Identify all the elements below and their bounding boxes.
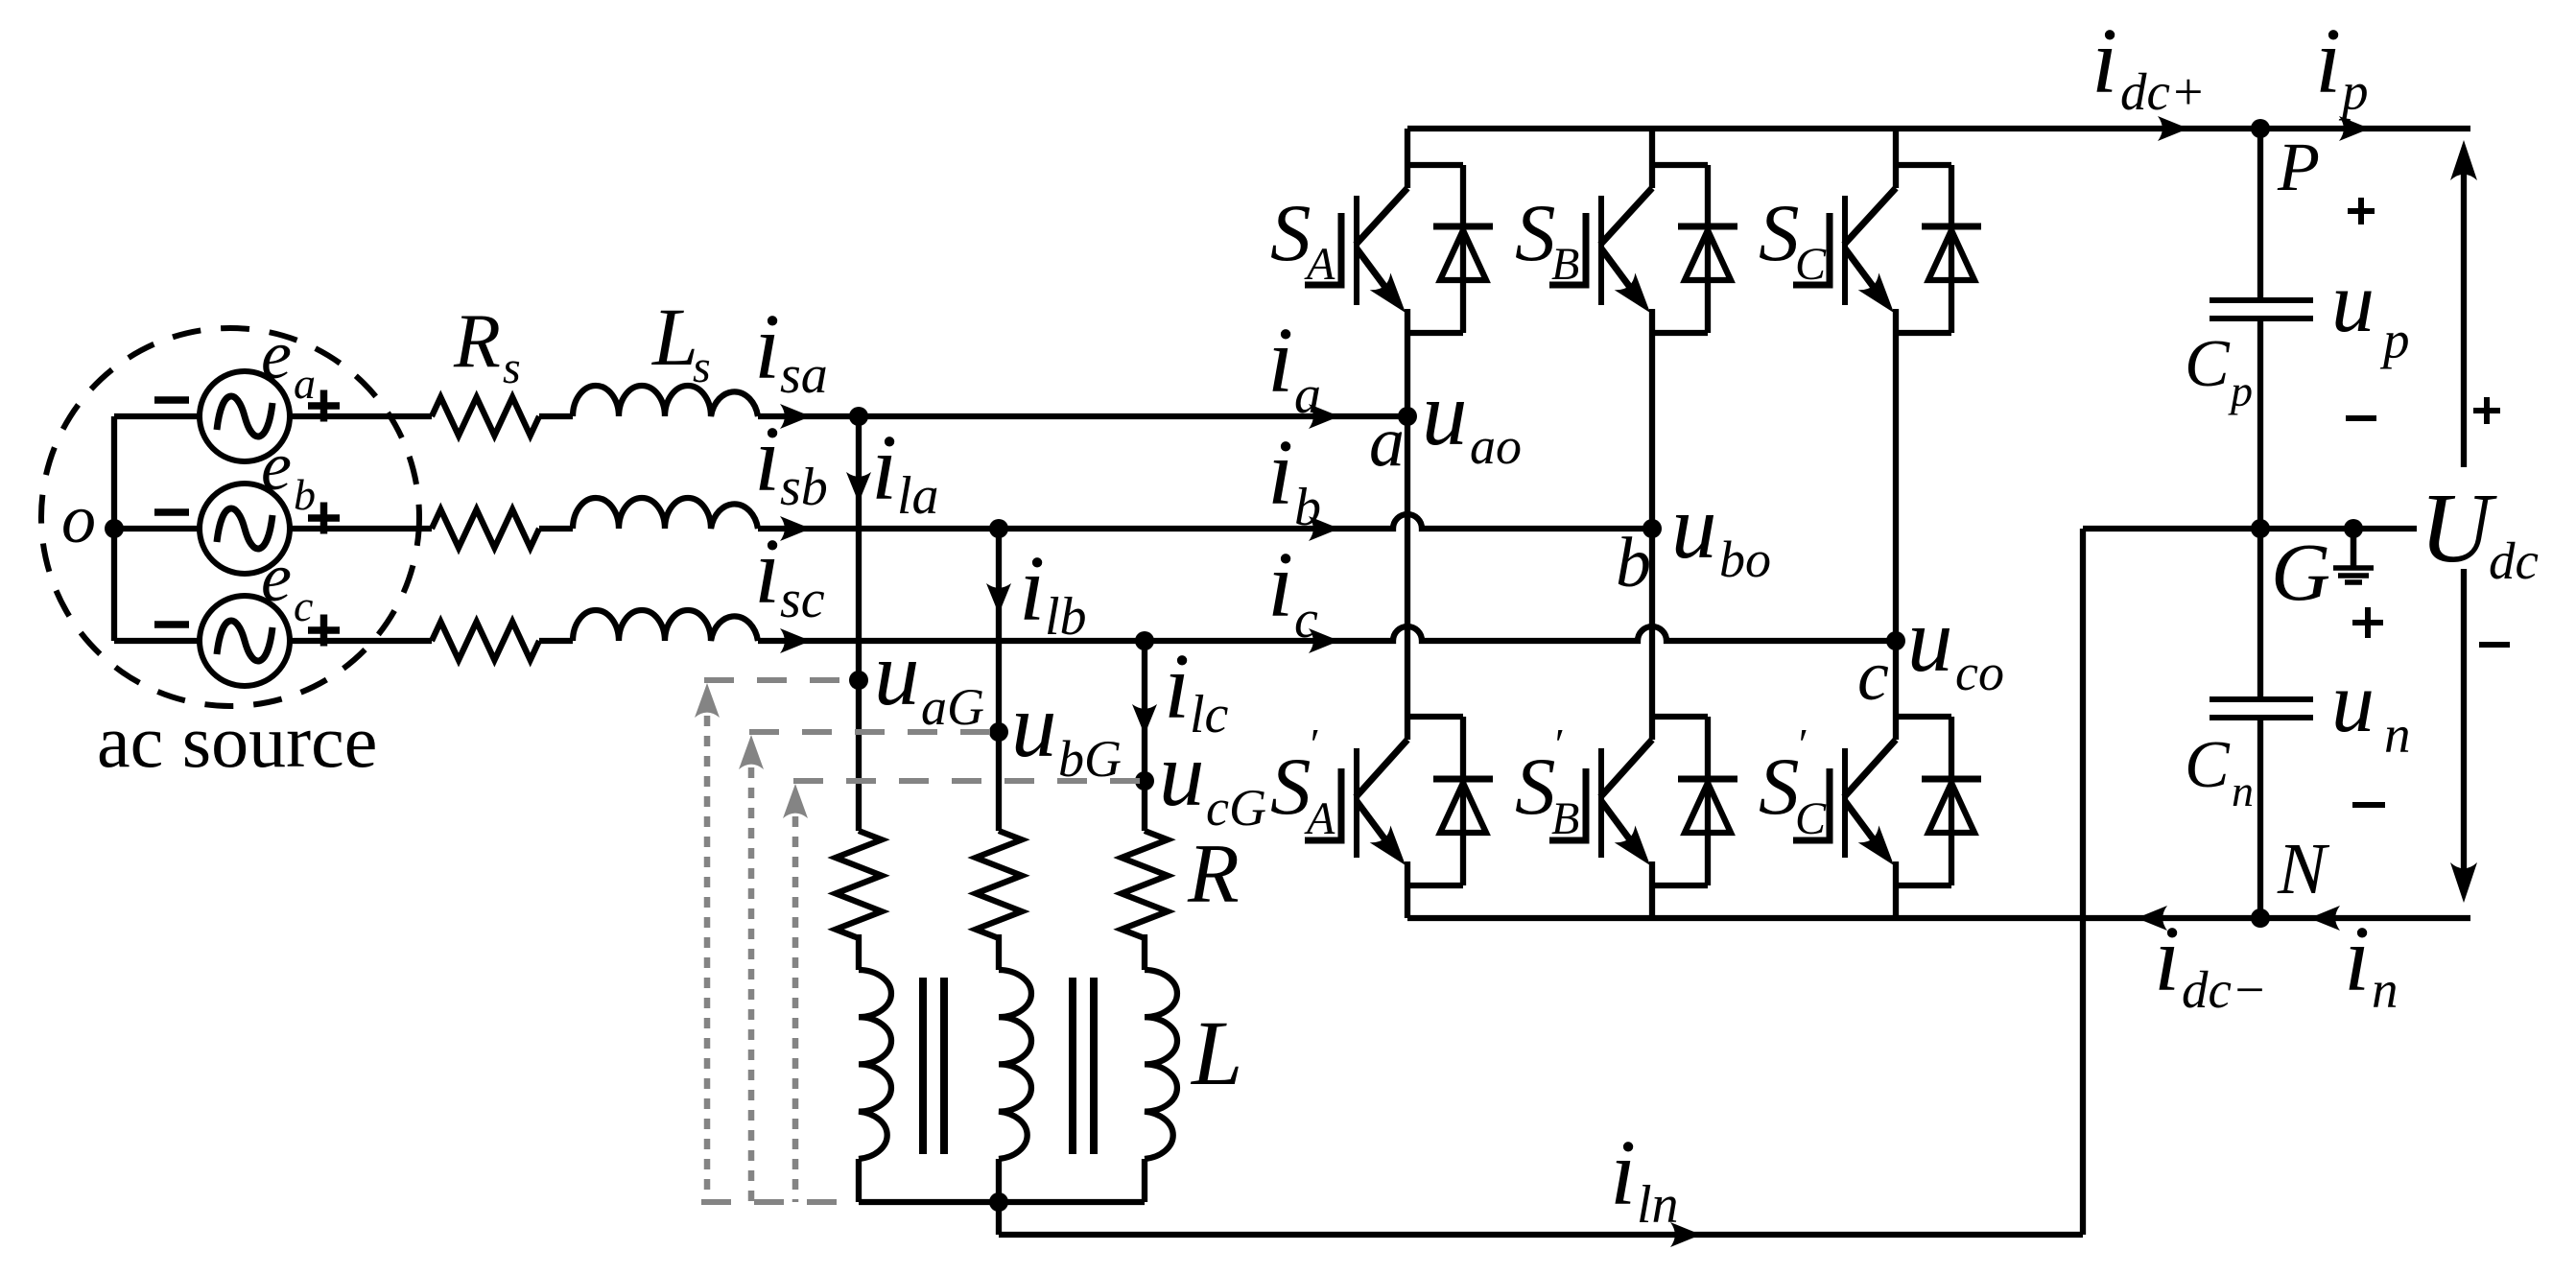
svg-text:c: c	[294, 581, 313, 630]
svg-text:p: p	[2228, 366, 2253, 415]
svg-text:i: i	[871, 416, 897, 520]
svg-text:i: i	[1267, 309, 1293, 413]
svg-text:a: a	[1369, 403, 1405, 482]
svg-text:i: i	[1610, 1121, 1636, 1225]
svg-text:ln: ln	[1637, 1175, 1679, 1235]
svg-text:C: C	[2185, 327, 2231, 401]
svg-text:S: S	[1515, 188, 1556, 278]
svg-text:cG: cG	[1206, 779, 1266, 837]
svg-text:n: n	[2384, 705, 2411, 764]
svg-text:′: ′	[1552, 720, 1563, 768]
svg-text:u: u	[2331, 655, 2375, 750]
svg-text:′: ′	[1308, 720, 1318, 768]
svg-text:n: n	[2232, 767, 2254, 815]
svg-text:U: U	[2420, 473, 2497, 583]
svg-text:A: A	[1304, 793, 1335, 844]
svg-text:R: R	[453, 299, 501, 384]
svg-text:co: co	[1955, 644, 2004, 701]
svg-text:sa: sa	[780, 345, 828, 405]
svg-text:s: s	[503, 342, 521, 393]
svg-text:a: a	[1294, 366, 1321, 425]
svg-text:s: s	[693, 342, 711, 392]
svg-text:i: i	[2154, 908, 2180, 1011]
svg-text:i: i	[2092, 10, 2117, 113]
svg-text:C: C	[2185, 728, 2231, 802]
svg-text:dc: dc	[2489, 531, 2539, 590]
svg-text:i: i	[1267, 421, 1293, 525]
svg-text:i: i	[754, 408, 780, 511]
svg-text:′: ′	[1796, 720, 1807, 768]
svg-text:N: N	[2277, 829, 2330, 909]
svg-text:B: B	[1551, 793, 1579, 844]
svg-text:L: L	[1190, 1002, 1242, 1104]
svg-text:sb: sb	[780, 458, 828, 517]
svg-text:S: S	[1270, 188, 1312, 278]
svg-text:ao: ao	[1470, 417, 1522, 475]
svg-text:i: i	[2315, 10, 2341, 113]
svg-text:o: o	[61, 481, 96, 557]
svg-text:la: la	[897, 466, 939, 526]
svg-text:B: B	[1551, 239, 1579, 290]
svg-text:e: e	[261, 539, 292, 616]
svg-text:G: G	[2271, 526, 2330, 618]
svg-text:i: i	[754, 520, 780, 624]
svg-text:S: S	[1515, 742, 1556, 832]
svg-text:S: S	[1759, 742, 1800, 832]
svg-text:ac source: ac source	[97, 699, 377, 783]
svg-text:u: u	[1011, 674, 1057, 776]
svg-text:i: i	[754, 295, 780, 399]
svg-text:i: i	[2344, 908, 2370, 1011]
svg-text:u: u	[1422, 363, 1468, 464]
svg-text:b: b	[1294, 478, 1321, 537]
svg-text:C: C	[1795, 793, 1827, 844]
svg-text:u: u	[1907, 589, 1953, 691]
svg-text:S: S	[1759, 188, 1800, 278]
svg-text:S: S	[1270, 742, 1312, 832]
svg-text:c: c	[1857, 637, 1889, 716]
svg-text:u: u	[2331, 255, 2375, 350]
svg-text:b: b	[294, 470, 316, 519]
svg-text:C: C	[1795, 239, 1827, 290]
svg-text:c: c	[1294, 590, 1318, 649]
svg-text:aG: aG	[921, 678, 984, 736]
svg-text:n: n	[2372, 960, 2399, 1019]
svg-text:P: P	[2277, 129, 2320, 205]
svg-text:R: R	[1187, 828, 1240, 921]
svg-text:e: e	[261, 428, 292, 505]
svg-text:bo: bo	[1719, 531, 1771, 588]
svg-text:b: b	[1616, 524, 1651, 602]
svg-text:i: i	[1019, 537, 1045, 641]
svg-text:lb: lb	[1045, 587, 1087, 647]
svg-text:p: p	[2379, 311, 2410, 369]
svg-text:sc: sc	[780, 570, 825, 629]
svg-text:e: e	[261, 317, 292, 393]
svg-text:u: u	[1671, 476, 1717, 578]
svg-text:dc+: dc+	[2120, 62, 2206, 121]
svg-text:A: A	[1304, 239, 1335, 290]
svg-text:u: u	[874, 623, 920, 724]
svg-text:dc−: dc−	[2182, 960, 2267, 1019]
svg-text:p: p	[2338, 62, 2369, 121]
svg-text:i: i	[1267, 533, 1293, 637]
svg-text:a: a	[294, 359, 316, 408]
svg-text:L: L	[650, 291, 698, 383]
svg-text:u: u	[1159, 723, 1205, 825]
